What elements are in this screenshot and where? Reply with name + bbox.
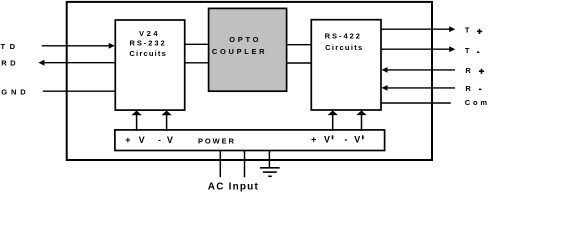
- wire R+ input with arrow: [382, 67, 456, 73]
- ground symbol earth: [260, 151, 280, 177]
- wire V24 to OPTO lower: [185, 62, 209, 64]
- svg-text:T: T: [465, 26, 470, 35]
- block PS1 POWER supply: [115, 130, 385, 151]
- svg-text:R: R: [465, 84, 471, 93]
- svg-text:AC Input: AC Input: [208, 182, 259, 192]
- block U1 V24 RS-232 Circuits: [115, 20, 184, 110]
- block U3 RS-422 Circuits: [311, 20, 381, 110]
- wire +V power to V24 with arrow: [131, 111, 141, 131]
- wire OPTO to RS-422 lower: [287, 62, 312, 64]
- wire OPTO to RS-422 upper: [287, 44, 312, 46]
- block U2 OPTO COUPLER: [209, 8, 287, 91]
- svg-text:RD: RD: [1, 59, 16, 68]
- svg-text:+ V: + V: [311, 134, 330, 144]
- wire T+ output with arrow: [381, 26, 455, 32]
- wire TD input with arrow: [42, 43, 115, 49]
- label R+: [465, 66, 484, 75]
- wire R- input with arrow: [382, 85, 456, 91]
- label T-: [465, 46, 479, 55]
- svg-text:GND: GND: [1, 87, 26, 96]
- label R-: [465, 84, 481, 93]
- wire Com: [381, 102, 451, 104]
- label T+: [465, 26, 482, 35]
- wire AC input line 2: [244, 151, 246, 178]
- prime mark on -V': [362, 135, 364, 139]
- prime mark on +V': [332, 135, 334, 139]
- wire GND: [43, 90, 115, 92]
- svg-text:T: T: [465, 46, 470, 55]
- svg-text:R: R: [465, 66, 471, 75]
- wire AC input line 1: [219, 151, 221, 178]
- wire +V' power to RS-422 with arrow: [328, 110, 338, 130]
- wire -V' power to RS-422 with arrow: [356, 110, 366, 130]
- wire -V power to V24 with arrow: [161, 111, 171, 131]
- svg-text:+ V: + V: [125, 135, 144, 145]
- svg-text:V24: V24: [139, 29, 158, 38]
- wire V24 to OPTO upper: [185, 43, 209, 45]
- wire RD output with arrow: [38, 60, 114, 66]
- svg-text:TD: TD: [1, 42, 16, 51]
- wire T- output with arrow: [381, 46, 455, 52]
- outer enclosure box: [67, 2, 432, 160]
- svg-text:Com: Com: [465, 98, 488, 107]
